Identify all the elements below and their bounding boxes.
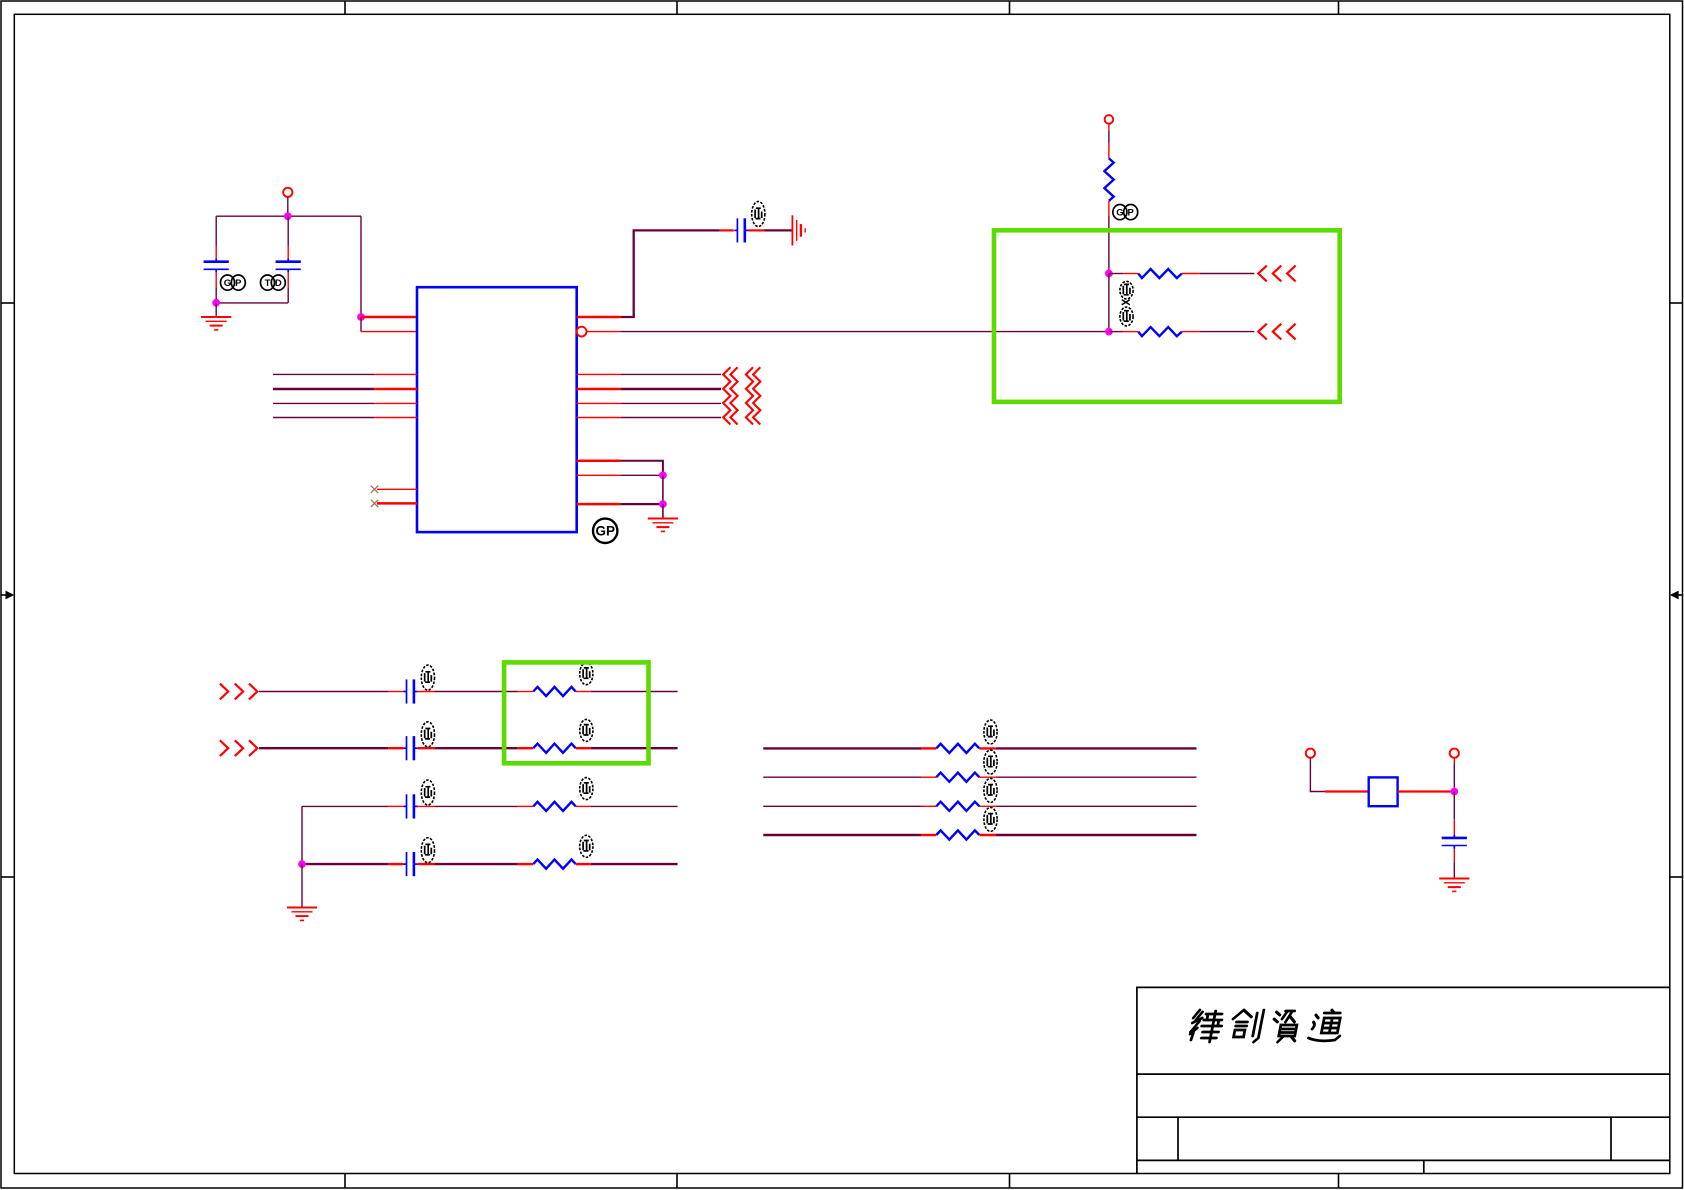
- resistor R7: [533, 860, 575, 869]
- resistor R3: [1138, 327, 1182, 336]
- center arrow left edge: [1, 591, 14, 600]
- junction node at ground branch: [212, 299, 220, 307]
- zone tick left y=303: [1, 302, 14, 304]
- wire from U1 right pin 9: [621, 373, 721, 375]
- pin lead of R8 (right): [979, 747, 996, 749]
- pin lead of R9 (right): [979, 776, 996, 778]
- wire bus line 2 right: [996, 776, 1197, 778]
- pin lead of R2 (right): [1182, 273, 1200, 275]
- pin 5 of U1: [374, 402, 417, 404]
- zone tick top x=345: [344, 1, 346, 14]
- wire left branch down to capacitor C1: [215, 216, 217, 246]
- junction node at U1 VCC pin: [357, 313, 365, 321]
- wire R1 into green box: [1108, 216, 1110, 274]
- wire down: [662, 475, 664, 504]
- input arrow chevrons row 1: [220, 684, 257, 700]
- wire row1 right segment: [591, 691, 678, 693]
- zone tick top x=1009.5: [1009, 1, 1011, 14]
- center arrow right edge: [1670, 591, 1683, 600]
- wire C3 to ground: [764, 229, 792, 231]
- pin lead of C8 (bottom): [1453, 849, 1455, 862]
- wire pin11 to junction: [620, 461, 663, 476]
- wire to U1 left pin 6: [273, 417, 374, 419]
- power terminal P2: [1105, 115, 1114, 124]
- pin lead of C5 (right): [418, 747, 435, 749]
- company logo text (4 CJK glyphs): [1189, 1010, 1225, 1042]
- pin 11 of U1 (thick): [577, 460, 621, 463]
- junction node A: [1105, 270, 1113, 278]
- junction node B: [1105, 328, 1113, 336]
- pin lead of C4 (right): [418, 691, 435, 693]
- off-page arrow chevrons (net A): [1258, 266, 1295, 282]
- wire C1 bottom to ground node: [215, 288, 217, 303]
- pin lead of R5 (right): [576, 747, 591, 749]
- pin lead of R2 (left): [1123, 273, 1138, 275]
- svg-text:GP: GP: [595, 524, 615, 539]
- power terminal P4: [1450, 749, 1459, 758]
- off-page arrow chevrons (net B): [1258, 324, 1295, 340]
- junction node: [659, 471, 667, 479]
- pin 12 of U1: [577, 417, 621, 419]
- wire bus line 3 left: [763, 805, 921, 807]
- wire junction down: [360, 317, 362, 332]
- pin 10 of U1: [577, 388, 621, 390]
- label of C6: [421, 780, 434, 805]
- resistor R5: [533, 744, 575, 753]
- reference designator circle GP of U1: [593, 519, 617, 543]
- separator x between labels: [1122, 300, 1130, 305]
- pin 13 of U1 (thick): [577, 503, 621, 506]
- pin lead of C2 (bottom): [287, 273, 289, 288]
- input arrow chevrons row 2: [220, 740, 257, 756]
- wire row3 left segment: [302, 805, 388, 807]
- junction node on top rail: [284, 212, 292, 220]
- pin 3 of U1: [374, 373, 417, 375]
- power terminal P1: [283, 188, 292, 197]
- junction node C: [1450, 788, 1458, 796]
- label of R9: [984, 750, 997, 774]
- zone tick right y=877: [1670, 876, 1683, 878]
- pin 1 of U1 (thick): [361, 316, 417, 319]
- resistor R4: [533, 687, 575, 696]
- wire row4 left segment: [302, 863, 388, 865]
- wire from U1 right pin 10: [621, 388, 721, 390]
- wire P4 to node C: [1453, 764, 1455, 788]
- pin lead of R1 (bottom): [1108, 201, 1110, 216]
- pin lead of C3 (left): [720, 229, 734, 231]
- wire bus line 4 right: [996, 834, 1197, 836]
- wire branch row3 to row4: [301, 806, 303, 864]
- label of R7: [580, 835, 593, 857]
- no-connect X on pin 8: [371, 500, 378, 507]
- capacitor C2: [276, 259, 301, 273]
- wire node B to R3: [1109, 331, 1123, 333]
- wire from U1 right pin 11: [621, 402, 721, 404]
- pin 16 of U1 (thick): [577, 316, 621, 319]
- green highlight box 2: [504, 662, 648, 763]
- wire U1 pin16 up to C3: [621, 230, 720, 317]
- wire horizontal top rail: [216, 215, 361, 217]
- pin lead of C3 (right): [749, 229, 765, 231]
- wire node A to R2: [1109, 273, 1123, 275]
- pin lead of C1 (bottom): [215, 273, 217, 288]
- pin lead of R7 (right): [576, 863, 591, 865]
- property mark T/D of C2: [261, 275, 286, 290]
- wire row1 left segment: [259, 691, 388, 693]
- label of R10: [984, 778, 997, 802]
- capacitor C7: [403, 852, 417, 876]
- pin 9 of U1: [577, 373, 621, 375]
- svg-text:D: D: [275, 278, 282, 289]
- resistor R8: [936, 744, 979, 753]
- junction node: [659, 500, 667, 508]
- wire bus line 1 left: [763, 747, 921, 749]
- wire pin13 to junction: [620, 503, 663, 505]
- wire R2 to off-page arrow: [1200, 273, 1255, 275]
- property mark G/P of C1: [221, 275, 246, 290]
- wire bus line 2 left: [763, 776, 921, 778]
- open-circle pin bubble on U1 output: [577, 327, 587, 337]
- ground GND3: [648, 519, 678, 532]
- svg-text:P: P: [235, 278, 242, 289]
- ground GND5: [1439, 879, 1469, 892]
- label of R4: [580, 663, 593, 685]
- label of R6: [580, 778, 593, 800]
- wire right branch down to capacitor C2: [287, 216, 289, 246]
- title block outline: [1137, 987, 1670, 1173]
- wire C7 to R7: [434, 863, 517, 865]
- wire R3 to off-page arrow: [1200, 331, 1255, 333]
- svg-text:T: T: [265, 278, 271, 289]
- wire to ground: [662, 504, 664, 518]
- pin lead of ferrite L1 (left): [1325, 790, 1369, 792]
- wire C5 to R5: [434, 747, 517, 749]
- pin 2 of U1: [361, 331, 417, 333]
- zone tick bottom x=1009.5: [1009, 1174, 1011, 1189]
- junction node row4: [298, 860, 306, 868]
- capacitor C4: [403, 679, 417, 703]
- IC U1 body: [417, 287, 577, 532]
- green highlight box 1: [994, 230, 1340, 402]
- pin 7 of U1 (no connect): [377, 488, 417, 490]
- pin lead of R10 (left): [921, 805, 936, 807]
- pin lead of R8 (left): [921, 747, 936, 749]
- long wire U1 to divider node B: [621, 331, 1109, 333]
- off-page torn-edge squiggle marks: [723, 367, 730, 424]
- pin lead of C1 (top): [215, 246, 217, 259]
- pin lead of ferrite L1 (right): [1398, 790, 1451, 792]
- wire to U1 left pin 4: [273, 388, 374, 390]
- zone tick left y=877: [1, 876, 14, 878]
- zone tick top x=1338.5: [1338, 1, 1340, 14]
- resistor R11: [936, 830, 979, 839]
- wire row2 left segment: [259, 747, 388, 749]
- resistor R10: [936, 802, 979, 811]
- pin lead of R1 (top): [1108, 144, 1110, 159]
- power terminal P3: [1306, 749, 1315, 758]
- wire from P1 to junction: [287, 197, 289, 213]
- wire from U1 right pin 12: [621, 417, 721, 419]
- pin lead of R11 (right): [979, 834, 996, 836]
- resistor R6: [533, 802, 575, 811]
- pin lead of R10 (right): [979, 805, 996, 807]
- wire bus line 3 right: [996, 805, 1197, 807]
- pin 12 of U1: [577, 474, 621, 476]
- pin lead of R4 (left): [518, 691, 534, 693]
- pin lead of C6 (left): [388, 805, 403, 807]
- pin 11 of U1: [577, 402, 621, 404]
- pin lead of C8 (top): [1453, 819, 1455, 836]
- label of R2: [1120, 281, 1133, 299]
- pin lead of R7 (left): [518, 863, 534, 865]
- wire pin12 to junction: [620, 474, 663, 476]
- wire to R1: [1108, 131, 1110, 144]
- capacitor C1: [204, 259, 229, 273]
- svg-text:P: P: [1128, 208, 1135, 219]
- zone tick bottom x=677: [676, 1174, 678, 1189]
- pin lead of R4 (right): [576, 691, 591, 693]
- label of R11: [984, 807, 997, 831]
- pin lead of C5 (left): [388, 747, 403, 749]
- wire C4 to R4: [434, 691, 517, 693]
- pin lead of C7 (left): [388, 863, 403, 865]
- zone tick bottom x=1338.5: [1338, 1174, 1340, 1189]
- capacitor C5: [403, 736, 417, 760]
- wire joining C1/C2 bottoms: [216, 302, 288, 304]
- wire row3 right segment: [591, 805, 678, 807]
- wire C8 to ground: [1453, 862, 1455, 877]
- zone tick top x=677: [676, 1, 678, 14]
- pin lead of R3 (left): [1123, 331, 1138, 333]
- label of R5: [580, 719, 593, 741]
- wire C6 to R6: [434, 805, 517, 807]
- zone tick bottom x=345: [344, 1174, 346, 1189]
- wire node A to node B: [1108, 274, 1110, 332]
- resistor R2: [1138, 269, 1182, 278]
- ground GND4: [287, 908, 317, 921]
- pin lead of R3 (right): [1182, 331, 1200, 333]
- pin lead of R9 (left): [921, 776, 936, 778]
- property mark G/P of R1: [1113, 205, 1138, 220]
- label of C5: [421, 722, 434, 747]
- pin lead of C7 (right): [418, 863, 435, 865]
- label of R3: [1120, 307, 1133, 326]
- pin lead of C4 (left): [388, 691, 403, 693]
- resistor R1 (vertical): [1104, 158, 1113, 200]
- svg-text:G: G: [1116, 208, 1123, 219]
- wire to ground: [301, 864, 303, 907]
- wire C2 bottom leg: [287, 288, 289, 303]
- wire to U1 left pin 5: [273, 402, 374, 404]
- pin lead of R6 (right): [576, 805, 591, 807]
- pin 8 of U1 (no connect): [377, 502, 417, 505]
- pin lead below P4: [1453, 758, 1455, 764]
- pin lead of R11 (left): [921, 834, 936, 836]
- pin lead of R5 (left): [518, 747, 534, 749]
- pin 4 of U1: [374, 388, 417, 390]
- wire bus line 4 left: [763, 834, 921, 836]
- pin lead after bubble: [587, 331, 621, 333]
- wire to ground: [215, 303, 217, 316]
- capacitor C6: [403, 794, 417, 818]
- wire from P3: [1310, 758, 1325, 792]
- wire node C down: [1453, 792, 1455, 820]
- pin lead: [1108, 124, 1110, 131]
- label of C4: [421, 665, 434, 690]
- label of C3: [752, 202, 765, 227]
- wire row4 right segment: [591, 863, 678, 865]
- ground GND2 (rotated): [792, 215, 805, 245]
- label of C7: [421, 838, 434, 863]
- wire bus line 1 right: [996, 747, 1197, 749]
- pin 6 of U1: [374, 417, 417, 419]
- pin lead of R6 (left): [518, 805, 534, 807]
- svg-text:G: G: [224, 278, 231, 289]
- ground GND1: [201, 317, 231, 330]
- ferrite bead L1: [1369, 777, 1398, 806]
- no-connect X on pin 7: [371, 486, 378, 493]
- wire to U1 left pin 3: [273, 373, 374, 375]
- zone tick right y=303: [1670, 302, 1683, 304]
- capacitor C8: [1442, 835, 1467, 849]
- pin lead of C6 (right): [418, 805, 435, 807]
- pin lead of C2 (top): [287, 246, 289, 259]
- label of R8: [984, 720, 997, 744]
- resistor R9: [936, 773, 979, 782]
- wire top rail down to U1 pin: [360, 216, 362, 317]
- wire row2 right segment: [591, 747, 678, 749]
- capacitor C3: [734, 218, 748, 242]
